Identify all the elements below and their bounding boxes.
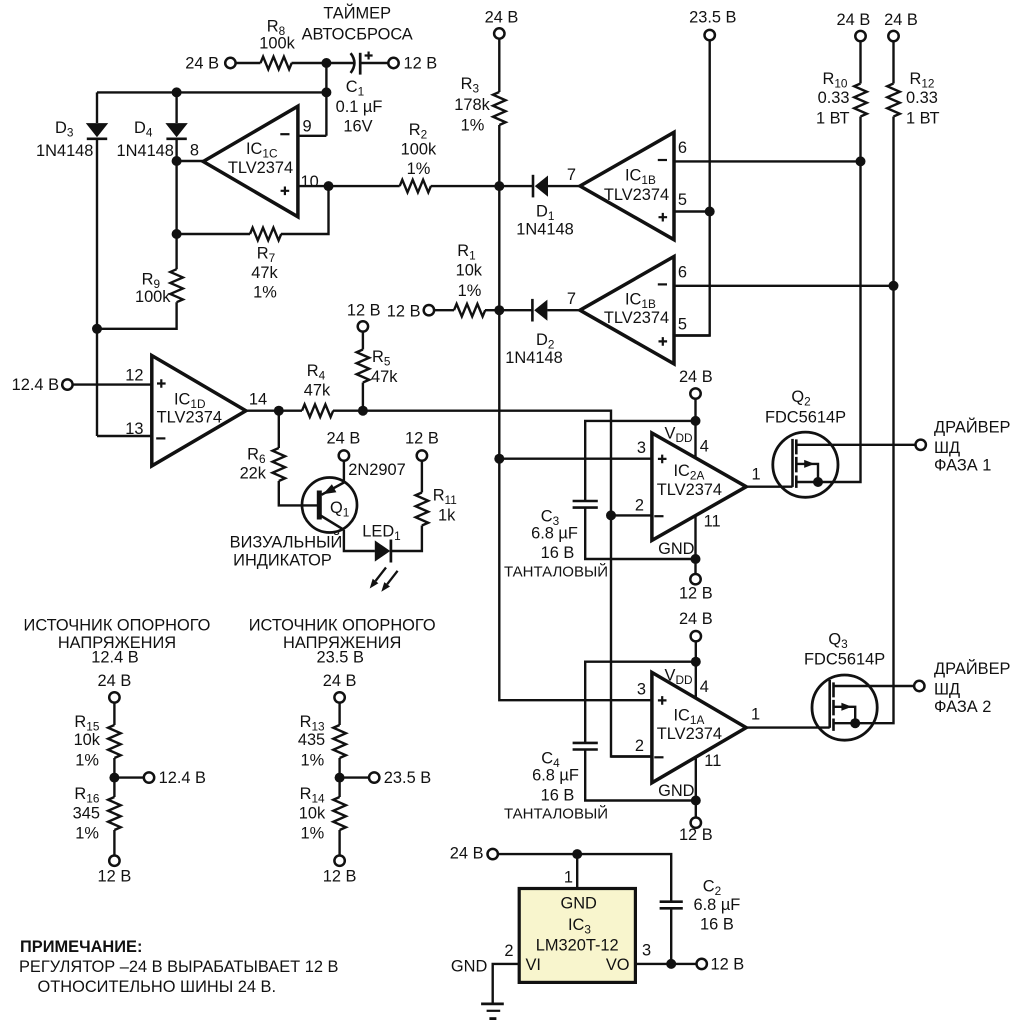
node junction R10 / pin 6 wire: [856, 156, 866, 166]
svg-text:24 В: 24 В: [185, 55, 219, 73]
wire IC2A pin 3 from R3 bus: [499, 458, 652, 460]
wire IC1A output to Q3 gate: [746, 726, 830, 728]
minus sign pin 2 (IC1A): [654, 756, 663, 758]
minus sign pin 9: [280, 133, 289, 135]
resistor R12: [887, 84, 900, 117]
wire R7 left: [177, 233, 250, 235]
svg-text:4: 4: [700, 438, 709, 456]
wire R5 bottom: [362, 383, 364, 411]
node junction pin 3 / C2: [666, 959, 676, 969]
wire D3 cathode down left bus: [96, 139, 98, 436]
node junction VDD / C4: [691, 657, 701, 667]
terminal 24 В (left divider): [109, 692, 119, 702]
terminal 12 В bottom (left divider): [109, 856, 119, 866]
node junction VDD / C3: [691, 416, 701, 426]
resistor R4: [302, 404, 333, 417]
wire to output terminal (right divider): [340, 776, 370, 778]
svg-text:0.33: 0.33: [906, 89, 938, 107]
resistor R16: [108, 797, 121, 830]
svg-text:22k: 22k: [240, 464, 267, 482]
wire R4 right / output bus to R4 bus corner: [333, 411, 652, 757]
wire IC1D output row y=410.7: [246, 410, 302, 412]
transistor Q3 FDC5614P (P-MOSFET): [812, 675, 877, 740]
wire pin 3 output: [635, 963, 696, 965]
wire to IC1D pin 13: [97, 435, 152, 437]
node junction pin 2 / R4 bus: [606, 510, 616, 520]
svg-text:23.5 В: 23.5 В: [317, 649, 364, 667]
plus sign pin 5 (IC1B upper): [659, 213, 668, 222]
svg-text:2: 2: [635, 496, 644, 514]
node junction R2/D1/R3 bus: [494, 181, 504, 191]
wire R6 top: [278, 411, 280, 448]
wire VDD IC1A: [695, 641, 697, 698]
svg-text:12.4 В: 12.4 В: [91, 649, 138, 667]
terminal 12 В (IC2A GND): [690, 574, 700, 584]
svg-text:12 В: 12 В: [711, 955, 745, 973]
svg-text:1: 1: [751, 706, 760, 724]
svg-text:12.4 В: 12.4 В: [12, 376, 59, 394]
svg-text:5: 5: [678, 316, 687, 334]
svg-text:TLV2374: TLV2374: [604, 186, 669, 204]
terminal 24 В (R8 input): [225, 58, 235, 68]
svg-text:1N4148: 1N4148: [117, 142, 174, 160]
svg-text:0.1 µF: 0.1 µF: [336, 98, 383, 116]
regulator IC3 LM320T-12 body: [519, 889, 635, 983]
terminal 24 В (R10): [855, 31, 865, 41]
svg-text:6.8 µF: 6.8 µF: [694, 896, 741, 914]
plus sign pin 5 (IC1B lower): [659, 337, 668, 346]
resistor R9: [170, 269, 183, 302]
wire R1 right to R3 bus: [485, 309, 499, 311]
resistor R5: [357, 350, 370, 383]
svg-text:ВИЗУАЛЬНЫЙ: ВИЗУАЛЬНЫЙ: [230, 533, 343, 552]
resistor R1: [454, 304, 485, 317]
wire D1 anode to IC1B pin 7: [548, 185, 580, 187]
wire to output terminal (left divider): [114, 776, 144, 778]
plus sign pin 10: [281, 187, 290, 196]
minus sign pin 6 (IC1B lower): [658, 283, 667, 285]
wire R9 bottom to corner: [97, 302, 177, 329]
svg-text:16 В: 16 В: [541, 544, 575, 562]
wire LED cathode to R11: [392, 526, 422, 552]
wire R10 bus down to Q2 source: [818, 117, 861, 483]
capacitor C1 (polarized): [351, 53, 361, 75]
svg-text:1%: 1%: [407, 160, 431, 178]
svg-text:12 В: 12 В: [679, 585, 713, 603]
wire IC1A pin 2 stub: [611, 755, 652, 757]
node junction GND / C3 bottom: [691, 554, 701, 564]
svg-text:10k: 10k: [299, 804, 326, 822]
diode D4: [165, 123, 187, 139]
resistor R10: [854, 84, 867, 117]
resistor R8: [261, 57, 292, 70]
svg-text:9: 9: [303, 118, 312, 136]
wire Q1 collector down to LED: [344, 530, 375, 551]
svg-text:24 В: 24 В: [884, 11, 918, 29]
svg-text:10: 10: [301, 173, 319, 191]
wire VDD IC2A: [694, 399, 696, 458]
node junction pin 5 / 23.5 В rail: [705, 207, 715, 217]
svg-text:435: 435: [298, 731, 325, 749]
svg-text:24 В: 24 В: [485, 9, 519, 27]
wire bottom (right divider): [338, 830, 340, 856]
svg-text:3: 3: [637, 680, 646, 698]
wire R8 input: [237, 62, 261, 64]
terminal 12.4 В input: [62, 379, 72, 389]
wire pin 2 to ground: [493, 964, 520, 1004]
terminal 12 В (R5 top): [358, 321, 368, 331]
svg-text:1%: 1%: [458, 282, 482, 300]
wire R2 left: [329, 185, 400, 187]
terminal 24 В (IC1A VDD): [691, 631, 701, 641]
svg-text:ШД: ШД: [934, 439, 960, 457]
svg-text:100k: 100k: [401, 141, 437, 159]
LED LED1: [375, 540, 391, 563]
wire C4 bottom connection: [585, 750, 696, 801]
svg-text:16 В: 16 В: [541, 787, 575, 805]
wire D2 cathode: [499, 309, 532, 311]
svg-text:3: 3: [637, 439, 646, 457]
svg-text:3: 3: [642, 941, 651, 959]
wire C1 node down to pin 9 branch: [325, 63, 327, 136]
capacitor C3: [573, 501, 598, 508]
capacitor C4: [573, 743, 598, 750]
wire D4 cathode to pin 8 node: [175, 139, 177, 270]
svg-text:TLV2374: TLV2374: [604, 309, 669, 327]
wire top (right divider): [338, 702, 340, 725]
wire GND to 12 В terminal (IC1A): [695, 801, 697, 818]
pin 5 stub wire (IC1B lower): [674, 334, 710, 336]
svg-text:24 В: 24 В: [679, 368, 713, 386]
wire R3 bus down to IC1A pin 3 corner: [499, 125, 652, 700]
wire C3 top connection: [585, 421, 695, 501]
wire R3 top: [498, 39, 500, 93]
wire GND IC2A: [694, 516, 696, 559]
wire middle (right divider): [338, 758, 340, 797]
svg-text:12 В: 12 В: [323, 868, 357, 886]
svg-text:12.4 В: 12.4 В: [159, 769, 206, 787]
terminal 12 В (R1 input): [424, 305, 434, 315]
svg-text:23.5 В: 23.5 В: [689, 9, 736, 27]
node junction R1/D2/R3 bus: [494, 305, 504, 315]
wire R10 top: [859, 41, 861, 83]
pin 6 stub wire to R10 bus: [674, 160, 861, 162]
wire C2 bottom: [670, 908, 672, 964]
svg-text:24 В: 24 В: [323, 672, 357, 690]
svg-text:ТАНТАЛОВЫЙ: ТАНТАЛОВЫЙ: [504, 563, 608, 581]
diode D1: [533, 175, 548, 198]
svg-text:ИСТОЧНИК ОПОРНОГО: ИСТОЧНИК ОПОРНОГО: [249, 617, 436, 635]
svg-text:TLV2374: TLV2374: [657, 481, 722, 499]
svg-text:GND: GND: [658, 540, 695, 558]
op-amp IC1D: [152, 356, 246, 466]
op-amp IC1B (upper): [580, 132, 674, 239]
minus sign pin 6 (IC1B upper): [658, 159, 667, 161]
svg-text:GND: GND: [451, 957, 488, 975]
svg-text:16V: 16V: [343, 118, 372, 136]
transistor Q2 FDC5614P (P-MOSFET): [773, 432, 838, 497]
svg-text:1%: 1%: [75, 752, 99, 770]
svg-text:16 В: 16 В: [700, 916, 734, 934]
svg-text:47k: 47k: [371, 368, 398, 386]
svg-text:VO: VO: [606, 956, 630, 974]
wire R11 top to 12 В: [421, 461, 423, 493]
svg-text:12 В: 12 В: [405, 430, 439, 448]
svg-text:1N4148: 1N4148: [516, 221, 573, 239]
svg-text:12 В: 12 В: [98, 868, 132, 886]
resistor R7: [250, 228, 281, 241]
terminal 24 В (Q1 emitter): [339, 450, 349, 460]
svg-text:24 В: 24 В: [679, 610, 713, 628]
svg-text:FDC5614P: FDC5614P: [765, 408, 846, 426]
node junction divider output (right): [335, 773, 345, 783]
svg-text:TLV2374: TLV2374: [228, 159, 293, 177]
node junction Q3 source: [850, 718, 860, 728]
resistor R6: [273, 448, 286, 481]
node junction divider output (left): [109, 773, 119, 783]
node junction D4 top: [172, 87, 182, 97]
svg-text:АВТОСБРОСА: АВТОСБРОСА: [302, 26, 413, 44]
svg-text:6.8 µF: 6.8 µF: [532, 767, 579, 785]
terminal output 23.5 В: [369, 772, 379, 782]
svg-text:6: 6: [678, 139, 687, 157]
terminal 24 В (R3 top): [494, 28, 504, 38]
wire R5 top: [362, 331, 364, 349]
terminal 12 В (C1 right): [388, 58, 398, 68]
svg-text:1%: 1%: [75, 825, 99, 843]
wire Q3 drain to output terminal: [834, 685, 915, 687]
svg-text:11: 11: [704, 512, 721, 530]
terminal 12 В (regulator output): [697, 959, 707, 969]
wire C4 top connection: [585, 662, 696, 743]
wire bottom (left divider): [113, 830, 115, 856]
terminal 23.5 В: [705, 30, 715, 40]
svg-text:24 В: 24 В: [327, 430, 361, 448]
terminal 24 В (IC2A VDD): [690, 388, 700, 398]
svg-text:1%: 1%: [300, 752, 324, 770]
plus sign pin 3 (IC1A): [658, 696, 667, 705]
pin 8 stub wire: [177, 160, 204, 162]
wire 12.4 В to pin 12: [72, 383, 151, 385]
wire Q1 emitter to 24 В: [343, 461, 345, 484]
svg-text:178k: 178k: [454, 96, 490, 114]
svg-text:100k: 100k: [135, 288, 171, 306]
wire top (left divider): [113, 702, 115, 725]
svg-text:ИСТОЧНИК ОПОРНОГО: ИСТОЧНИК ОПОРНОГО: [24, 617, 211, 635]
node junction left bus / R9 bottom: [92, 324, 102, 334]
pin 6 stub wire to R12 bus: [674, 285, 894, 287]
node junction pin 1: [572, 849, 582, 859]
svg-text:1%: 1%: [300, 825, 324, 843]
plus sign pin 3 (IC2A): [658, 455, 667, 464]
svg-text:11: 11: [704, 752, 721, 770]
wire C3 bottom connection: [585, 508, 695, 559]
wire 23.5 В rail: [674, 40, 710, 335]
node junction GND / C4 bottom: [691, 796, 701, 806]
wire R8 to C1 node: [292, 62, 356, 64]
wire R7 right up to pin 10 node: [281, 186, 329, 234]
svg-text:ДРАЙВЕР: ДРАЙВЕР: [934, 417, 1011, 436]
node junction output / R6: [274, 406, 284, 416]
minus sign pin 2 (IC2A): [654, 515, 663, 517]
svg-text:10k: 10k: [74, 731, 101, 749]
terminal output 12.4 В: [144, 772, 154, 782]
svg-text:12: 12: [125, 366, 143, 384]
resistor R11: [416, 493, 429, 526]
svg-text:ДРАЙВЕР: ДРАЙВЕР: [934, 659, 1011, 678]
svg-text:1%: 1%: [253, 284, 277, 302]
svg-text:1N4148: 1N4148: [505, 349, 562, 367]
terminal 24 В (regulator): [488, 849, 498, 859]
svg-text:23.5 В: 23.5 В: [384, 769, 431, 787]
svg-text:1k: 1k: [438, 507, 456, 525]
svg-text:FDC5614P: FDC5614P: [804, 650, 885, 668]
wire IC2A pin 2 from R4 bus: [611, 514, 652, 516]
svg-text:LM320T-12: LM320T-12: [536, 936, 619, 954]
svg-text:6: 6: [678, 263, 687, 281]
svg-text:12 В: 12 В: [404, 55, 438, 73]
svg-text:ПРИМЕЧАНИЕ:: ПРИМЕЧАНИЕ:: [20, 938, 142, 956]
ground symbol: [481, 1004, 504, 1019]
svg-text:8: 8: [190, 142, 199, 160]
svg-text:345: 345: [73, 804, 100, 822]
svg-text:12 В: 12 В: [347, 302, 381, 320]
diode D3: [86, 123, 108, 139]
svg-text:VI: VI: [526, 956, 542, 974]
terminal 24 В (R12): [888, 31, 898, 41]
node junction R8/C1: [321, 58, 331, 68]
resistor R15: [108, 725, 121, 758]
svg-text:ТАНТАЛОВЫЙ: ТАНТАЛОВЫЙ: [504, 805, 608, 823]
node junction R5 bottom: [358, 406, 368, 416]
svg-text:ФАЗА 2: ФАЗА 2: [934, 698, 991, 716]
pin 5 stub wire to 23.5 В rail: [674, 210, 710, 212]
svg-text:6.8 µF: 6.8 µF: [531, 525, 578, 543]
wire R6 bottom to Q1 base: [279, 481, 319, 505]
wire R12 top: [892, 41, 894, 83]
resistor R2: [400, 180, 431, 193]
node junction pin 10 / R7 / R2: [324, 181, 334, 191]
diode D2: [532, 299, 547, 322]
wire R12 bus down to Q3 source: [855, 117, 893, 724]
op-amp IC1C: [203, 106, 298, 217]
terminal ДРАЙВЕР ШД ФАЗА 1: [916, 440, 926, 450]
svg-text:1%: 1%: [461, 117, 485, 135]
svg-text:РЕГУЛЯТОР –24 В ВЫРАБАТЫВАЕТ 1: РЕГУЛЯТОР –24 В ВЫРАБАТЫВАЕТ 12 В: [19, 958, 338, 976]
transistor Q1 2N2907 (PNP): [302, 478, 357, 533]
svg-text:2: 2: [504, 942, 513, 960]
terminal 24 В (right divider): [334, 692, 344, 702]
wire middle (left divider): [113, 758, 115, 797]
node junction pin 3 / R3 bus: [494, 454, 504, 464]
wire D4 anode: [175, 92, 177, 123]
wire C1 to 12 В terminal: [362, 62, 388, 64]
wire R2 right to R3 bus: [431, 185, 500, 187]
svg-text:1 ВТ: 1 ВТ: [816, 109, 850, 127]
resistor R13: [333, 725, 346, 758]
svg-text:ИНДИКАТОР: ИНДИКАТОР: [233, 552, 332, 570]
svg-text:ШД: ШД: [934, 680, 960, 698]
wire D3 anode: [96, 92, 98, 123]
wire Q2 drain to output terminal: [796, 444, 915, 446]
svg-text:1N4148: 1N4148: [36, 142, 93, 160]
svg-text:47k: 47k: [251, 264, 278, 282]
svg-text:13: 13: [125, 420, 143, 438]
svg-text:5: 5: [678, 191, 687, 209]
svg-text:4: 4: [700, 678, 709, 696]
svg-text:TLV2374: TLV2374: [157, 409, 222, 427]
svg-text:10k: 10k: [456, 261, 483, 279]
wire top feedback rail y=92: [97, 91, 326, 93]
svg-text:ФАЗА 1: ФАЗА 1: [934, 457, 991, 475]
minus sign pin 13: [156, 437, 165, 439]
svg-text:14: 14: [249, 390, 267, 408]
svg-text:7: 7: [567, 290, 576, 308]
wire GND to 12 В terminal: [694, 559, 696, 574]
svg-text:1 ВТ: 1 ВТ: [906, 109, 940, 127]
terminal 12 В (R11 top): [417, 450, 427, 460]
wire GND IC1A: [695, 757, 697, 800]
node junction R7 left on D4 bus: [172, 229, 182, 239]
op-amp IC1A: [652, 672, 746, 782]
node junction pin 6 / R12 bus: [889, 281, 899, 291]
wire R1 left: [434, 309, 454, 311]
node junction Q2 source: [813, 477, 823, 487]
plus mark of C1: [365, 52, 373, 60]
wire D1 cathode: [499, 185, 533, 187]
svg-text:ТАЙМЕР: ТАЙМЕР: [323, 4, 391, 23]
wire pin 1 (GND of IC3): [576, 854, 578, 888]
svg-text:12 В: 12 В: [387, 303, 421, 321]
svg-text:47k: 47k: [304, 382, 331, 400]
resistor R14: [333, 797, 346, 830]
capacitor C2: [660, 902, 683, 909]
op-amp IC2A: [652, 433, 746, 540]
svg-text:24 В: 24 В: [98, 672, 132, 690]
wire 24 В input rail to C2: [498, 854, 672, 902]
svg-text:ОТНОСИТЕЛЬНО ШИНЫ 24 В.: ОТНОСИТЕЛЬНО ШИНЫ 24 В.: [38, 978, 277, 996]
svg-text:0.33: 0.33: [818, 89, 850, 107]
svg-text:100k: 100k: [259, 35, 295, 53]
pin 9 stub wire: [298, 135, 327, 137]
svg-text:12 В: 12 В: [679, 826, 713, 844]
terminal 12 В (IC1A GND): [691, 818, 701, 828]
svg-text:1: 1: [752, 466, 761, 484]
node junction on feedback bus: [321, 87, 331, 97]
svg-text:2: 2: [635, 737, 644, 755]
svg-text:GND: GND: [560, 895, 597, 913]
svg-text:24 В: 24 В: [837, 11, 871, 29]
pin 10 stub wire: [298, 185, 329, 187]
svg-text:7: 7: [567, 166, 576, 184]
resistor R3: [493, 92, 506, 125]
op-amp IC1B (lower): [580, 257, 674, 364]
LED light arrows: [370, 568, 398, 592]
svg-text:GND: GND: [658, 782, 695, 800]
wire IC2A output to Q2 gate: [746, 486, 792, 488]
svg-text:2N2907: 2N2907: [348, 461, 405, 479]
wire D2 anode to IC1B pin 7: [547, 309, 580, 311]
svg-text:24 В: 24 В: [450, 845, 484, 863]
plus sign pin 12: [157, 379, 166, 388]
node junction pin 8 of IC1C: [172, 156, 182, 166]
svg-text:1: 1: [564, 869, 573, 887]
terminal 12 В bottom (right divider): [334, 856, 344, 866]
terminal ДРАЙВЕР ШД ФАЗА 2: [914, 681, 924, 691]
svg-text:TLV2374: TLV2374: [657, 725, 722, 743]
